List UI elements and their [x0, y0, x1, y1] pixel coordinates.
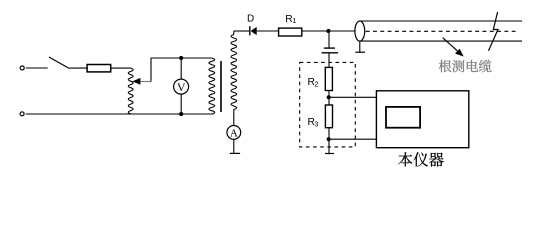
node bottom rail junction: [179, 112, 183, 116]
wire secondary to ammeter: [233, 109, 235, 125]
wire resistor to rheostat: [111, 67, 131, 69]
rheostat wiper arrow: [140, 81, 151, 83]
wire ammeter to ground: [233, 139, 235, 153]
label: gen ce dian lan (cable under test), gray: [439, 60, 492, 72]
wire R3 to bottom node: [328, 128, 330, 154]
cable sheath ground lead: [359, 41, 361, 52]
pointer arrow to label: [443, 38, 459, 53]
svg-text:2: 2: [314, 79, 318, 88]
label: ben yi qi (this instrument): [398, 152, 444, 166]
lightning fault symbol: [489, 12, 499, 51]
cable sheath top line: [360, 20, 522, 22]
resistor R1: [279, 28, 302, 36]
capacitor C plates: [324, 47, 335, 49]
capacitor C top lead: [328, 33, 330, 48]
terminal J1: [20, 66, 24, 70]
transformer core: [220, 61, 222, 112]
resistor R3: [325, 105, 332, 128]
rheostat RP winding: [128, 68, 133, 114]
wire R2 to node: [328, 91, 330, 106]
svg-text:A: A: [230, 127, 238, 139]
instrument outer box: [376, 91, 468, 148]
svg-text:3: 3: [314, 119, 318, 128]
node R2/R3 junction: [327, 95, 331, 99]
svg-text:1: 1: [292, 16, 296, 25]
wire node to instrument: [329, 96, 377, 98]
node R3 bottom junction: [327, 137, 331, 141]
wire wiper up to top rail: [151, 58, 212, 82]
capacitor C bottom lead: [328, 53, 330, 67]
resistor R2: [325, 67, 332, 90]
svg-text:V: V: [177, 80, 186, 94]
transformer secondary winding: [233, 31, 235, 35]
voltmeter V: [174, 58, 189, 114]
wire J1 to switch: [26, 67, 48, 69]
cable end ellipse: [355, 21, 365, 41]
ground bar (cable): [355, 51, 365, 53]
node top rail junction: [179, 56, 183, 60]
dashed enclosure box: [300, 62, 356, 146]
wire diode to R1: [257, 30, 279, 32]
bottom rail wire: [26, 113, 214, 115]
terminal J2: [20, 112, 24, 116]
cable conductor dashed line: [366, 30, 519, 32]
transformer primary winding: [209, 58, 215, 114]
wire bottom node to instrument: [329, 138, 377, 140]
cable sheath bottom line: [360, 40, 522, 42]
ammeter A: [227, 125, 241, 139]
switch S1 blade: [49, 57, 68, 68]
diode D: [250, 26, 257, 35]
wire switch to resistor: [68, 67, 87, 69]
resistor R (series box): [87, 65, 111, 72]
wire R1 to cable: [302, 30, 355, 32]
ground bar (ammeter): [230, 152, 240, 154]
instrument display window: [386, 107, 420, 128]
svg-text:D: D: [247, 13, 254, 24]
node R1/cable junction: [326, 29, 330, 33]
ground bar (divider): [325, 153, 334, 155]
wire secondary top to diode: [234, 30, 249, 32]
